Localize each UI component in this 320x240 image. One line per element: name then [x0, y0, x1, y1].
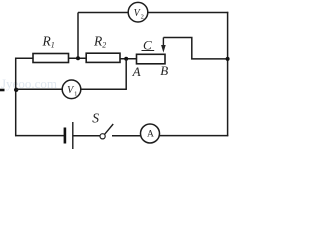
switch S lever	[104, 124, 113, 135]
svg-text:B: B	[160, 63, 168, 78]
node: junction R1/R2/V2-branch	[76, 56, 80, 60]
wire: ammeter to right rail	[159, 135, 228, 137]
wire: left rail to voltmeter V1	[16, 88, 63, 90]
wire: battery to switch	[73, 135, 100, 137]
svg-text:A: A	[147, 129, 154, 139]
node: junction R2/C/V1-branch	[124, 57, 128, 61]
switch S pivot contact	[100, 134, 105, 139]
rheostat C body	[137, 54, 166, 64]
rheostat wiper arrow	[161, 38, 166, 53]
svg-text:A: A	[132, 64, 141, 79]
resistor R1	[33, 54, 69, 63]
wire: right rail	[227, 12, 229, 136]
wire: R2 to rheostat C	[120, 58, 137, 60]
ammeter A	[141, 124, 160, 143]
wire: voltmeter V1 to vertical riser	[81, 88, 127, 90]
node: junction wiper-wire / right rail	[226, 57, 230, 61]
node: junction left rail / V1 branch	[14, 88, 18, 92]
voltmeter V2	[128, 2, 148, 22]
wire: stub at left image edge	[0, 89, 5, 92]
wire: wiper to right rail (step)	[163, 38, 228, 59]
svg-text:1: 1	[74, 90, 77, 97]
battery: short thick plate (negative)	[64, 128, 67, 144]
battery: long thin plate (positive)	[72, 122, 74, 150]
wire: vertical from R1-R2 junction up to top rail	[77, 13, 79, 59]
wire: top rail left segment	[78, 12, 129, 14]
wire: bottom rail, left rail to battery	[15, 135, 64, 137]
svg-text:2: 2	[141, 13, 144, 20]
wire: R1 to R2	[69, 57, 87, 59]
resistor R2	[86, 53, 120, 62]
svg-text:S: S	[92, 110, 99, 125]
voltmeter V1	[62, 80, 81, 99]
svg-text:R1: R1	[42, 33, 55, 49]
svg-text:R2: R2	[93, 33, 106, 49]
label C underline	[142, 50, 155, 52]
wire: left rail to R1	[15, 57, 33, 59]
wire: vertical riser to R2/C junction	[125, 59, 127, 90]
wire: switch to ammeter	[112, 135, 141, 137]
wire: top rail right segment	[148, 12, 229, 14]
wire: left rail	[15, 58, 17, 137]
